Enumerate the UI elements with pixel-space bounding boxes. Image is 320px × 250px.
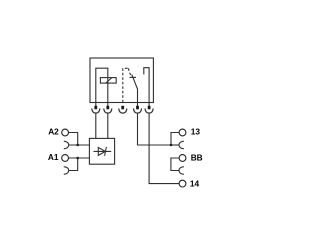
- terminal t4 stub: [137, 103, 139, 107]
- wire node13 to arc 13: [171, 144, 179, 146]
- svg-text:13: 13: [191, 127, 201, 137]
- svg-text:14: 14: [190, 178, 200, 188]
- pin t1: [94, 106, 97, 110]
- contact bar: [130, 76, 137, 78]
- terminal t1 stub: [95, 103, 97, 107]
- terminal t3 socket arc: [119, 108, 127, 113]
- relay coil rectangle: [100, 78, 116, 84]
- pin t4: [136, 106, 139, 110]
- terminal t5 stub: [148, 103, 150, 107]
- wire A2 arc to diode box: [69, 144, 90, 146]
- terminal circle A1: [62, 155, 69, 162]
- relay module box K1: [90, 58, 153, 103]
- diode D1: [94, 147, 112, 156]
- terminal circle BB: [179, 155, 186, 162]
- terminal circle 13: [179, 129, 186, 136]
- contact fixed hook to terminal 5: [144, 68, 149, 103]
- actuator dashed link slant: [129, 68, 133, 77]
- wire BB circle to BB arc: [171, 158, 179, 171]
- actuator dashed link top dash: [125, 67, 128, 69]
- socket arc A2 (open left): [64, 141, 69, 149]
- wire A1 circle to diode box: [69, 157, 90, 159]
- svg-text:BB: BB: [191, 152, 203, 162]
- pin t5: [148, 106, 151, 110]
- coil wiring loop: [96, 68, 108, 102]
- socket arc 13 (open right): [179, 141, 184, 149]
- socket arc BB (open right): [179, 167, 184, 175]
- coil slash: [106, 78, 112, 84]
- wire t5 down to circle 14: [149, 113, 179, 183]
- wire t1 to diode box: [95, 113, 97, 138]
- junction dot 13: [170, 144, 172, 146]
- terminal t5 socket arc: [145, 108, 153, 113]
- terminal t2 stub: [107, 103, 109, 107]
- wire t4 down to node 13: [138, 113, 172, 145]
- svg-text:A2: A2: [48, 126, 59, 136]
- svg-text:A1: A1: [48, 152, 59, 162]
- wire t2 to diode box: [107, 113, 109, 138]
- contact moving arm: [132, 75, 138, 103]
- terminal t2 socket arc: [104, 108, 112, 113]
- junction dot A1: [77, 157, 79, 159]
- pin t3: [121, 106, 124, 110]
- terminal circle 14: [179, 180, 186, 187]
- actuator dashed link vertical: [122, 68, 124, 104]
- terminal circle A2: [62, 129, 69, 136]
- terminal t1 socket arc: [92, 108, 100, 113]
- pin t2: [106, 106, 109, 110]
- wire A1 junction to A1 arc: [69, 158, 78, 171]
- wire A2 circle to junction: [69, 133, 78, 146]
- junction dot A2: [77, 144, 79, 146]
- socket arc A1 (open left): [64, 167, 69, 175]
- diode box: [89, 138, 114, 164]
- wire node13 up to circle 13: [171, 133, 179, 146]
- terminal t4 socket arc: [133, 108, 141, 113]
